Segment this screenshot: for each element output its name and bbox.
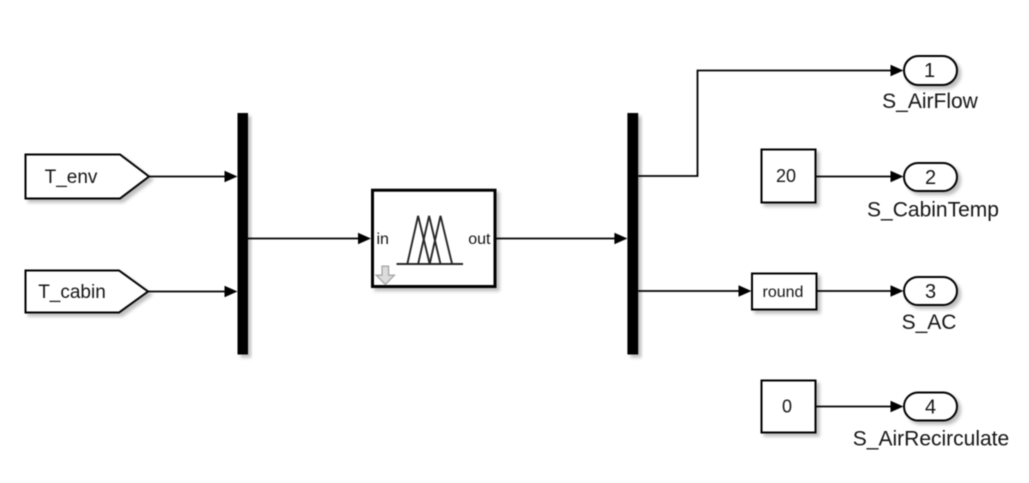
constant block 20 <box>762 150 816 203</box>
svg-text:S_AC: S_AC <box>902 311 957 334</box>
svg-text:T_env: T_env <box>45 167 98 188</box>
rounding function block round <box>752 274 817 310</box>
svg-text:4: 4 <box>925 397 936 419</box>
outport 2 <box>904 163 957 191</box>
wire constant 0 to outport 4 <box>816 401 904 412</box>
svg-text:1: 1 <box>924 60 935 82</box>
svg-text:T_cabin: T_cabin <box>38 282 106 303</box>
outport 3 <box>904 277 957 305</box>
wire Mux to fuzzy controller <box>248 233 371 244</box>
wire T_env to Mux <box>149 171 238 182</box>
wire Demux out1 to outport 1 <box>638 65 903 176</box>
constant block 0 <box>762 381 816 433</box>
fuzzy logic controller block U1 <box>373 190 496 286</box>
inport tag T_env <box>26 155 150 199</box>
wire T_cabin to Mux <box>148 286 238 297</box>
wire fuzzy controller to Demux <box>496 233 627 244</box>
svg-text:3: 3 <box>925 281 936 303</box>
membership function icon <box>397 216 464 264</box>
svg-text:in: in <box>377 231 389 248</box>
wire constant 20 to outport 2 <box>816 171 904 182</box>
svg-text:2: 2 <box>925 167 936 189</box>
wire Demux out2 to round block <box>638 285 751 296</box>
svg-text:0: 0 <box>782 396 792 416</box>
mux bar <box>238 113 249 355</box>
svg-text:20: 20 <box>776 166 796 186</box>
wire round block to outport 3 <box>817 285 904 296</box>
svg-text:round: round <box>763 284 804 301</box>
outport 4 <box>904 393 957 421</box>
demux bar <box>627 113 638 355</box>
svg-text:S_AirFlow: S_AirFlow <box>882 90 979 113</box>
outport 1 <box>904 56 957 85</box>
svg-text:S_AirRecirculate: S_AirRecirculate <box>853 428 1009 451</box>
inport tag T_cabin <box>26 271 149 313</box>
gray drop arrow <box>376 266 394 284</box>
svg-text:out: out <box>468 231 491 248</box>
svg-text:S_CabinTemp: S_CabinTemp <box>867 199 999 222</box>
